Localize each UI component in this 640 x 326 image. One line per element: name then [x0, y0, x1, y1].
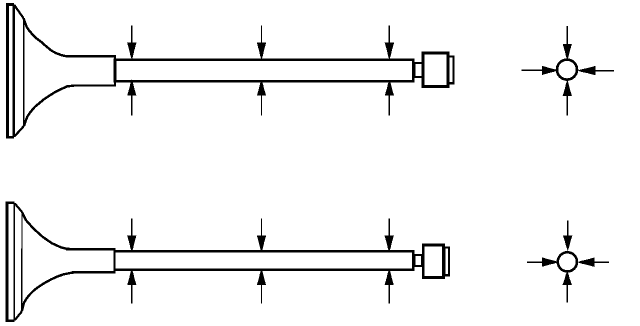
cross-section circle 1 — [557, 60, 577, 80]
valve 2 stem arrow up 3 shaft — [388, 284, 390, 304]
valve 2 stem arrow down 2 head — [258, 236, 266, 251]
valve 1 stem arrow down 3 head — [385, 43, 393, 58]
valve 1 neck bottom line — [72, 84, 115, 86]
valve 1 tip cap — [449, 57, 454, 84]
valve 2 stem arrow down 3 head — [385, 236, 393, 251]
valve 2 head bottom chamfer — [15, 312, 22, 321]
valve 2 tip cap — [445, 248, 449, 276]
valve 2 stem arrow up 1 head — [128, 270, 136, 285]
valve 2 tip block — [423, 245, 443, 277]
circle 1 left arrow shaft — [522, 69, 544, 71]
valve 1 stem arrow down 1 shaft — [131, 26, 133, 45]
valve 1 stem arrow up 3 head — [385, 81, 393, 95]
valve 2 neck-to-stem step — [113, 248, 115, 273]
valve 1 neck top line — [66, 55, 115, 58]
circle 1 right arrow shaft — [595, 70, 614, 72]
circle 2 top arrow shaft — [567, 220, 569, 237]
valve 1 head margin line — [23, 18, 25, 126]
valve 2 stem arrow up 3 head — [385, 270, 393, 285]
valve 2 stem arrow up 1 shaft — [131, 284, 133, 304]
valve 2 stem — [115, 251, 414, 269]
valve 1 head face outline — [7, 4, 14, 137]
valve 2 stem arrow down 3 shaft — [388, 218, 390, 237]
circle 1 bottom arrow head — [563, 81, 571, 95]
circle 1 right arrow head — [579, 67, 595, 75]
valve 1 head top chamfer — [14, 5, 23, 18]
circle 2 right arrow head — [579, 258, 594, 266]
valve 1 stem arrow up 1 head — [128, 81, 136, 95]
valve 1 stem arrow up 2 shaft — [261, 94, 263, 115]
cross-section circle 2 — [558, 252, 577, 271]
valve 2 keeper groove — [414, 255, 422, 266]
circle 2 top arrow head — [564, 236, 572, 249]
valve 1 tip block — [423, 53, 448, 86]
circle 2 left arrow shaft — [527, 261, 544, 263]
circle 1 top arrow head — [563, 44, 571, 58]
valve 1 lower fillet — [24, 86, 74, 126]
circle 1 top arrow shaft — [566, 26, 568, 45]
valve 1 stem arrow up 1 shaft — [131, 94, 133, 115]
circle 2 left arrow head — [543, 258, 558, 266]
valve 1 stem arrow down 1 head — [128, 43, 136, 58]
valve 1 upper fillet — [24, 18, 71, 56]
valve 2 head top chamfer — [15, 203, 22, 211]
valve 2 stem arrow down 1 shaft — [131, 218, 133, 237]
valve 2 stem arrow up 2 head — [258, 270, 266, 285]
valve 2 lower fillet — [22, 273, 74, 312]
valve 2 neck top line — [66, 248, 115, 251]
valve 2 head face outline — [7, 203, 15, 321]
valve 1 stem arrow down 2 shaft — [261, 26, 263, 45]
valve 1 keeper groove — [414, 63, 423, 77]
valve 2 stem arrow up 2 shaft — [261, 284, 263, 304]
valve 1 neck-to-stem step — [114, 55, 116, 87]
valve 2 neck bottom line — [72, 271, 115, 273]
circle 1 left arrow head — [542, 66, 556, 74]
circle 2 right arrow shaft — [594, 261, 609, 263]
valve 1 stem arrow down 3 shaft — [388, 26, 390, 45]
valve 2 upper fillet — [22, 212, 70, 249]
valve 1 stem arrow down 2 head — [258, 43, 266, 58]
valve 2 stem arrow down 1 head — [128, 236, 136, 251]
valve 2 stem arrow down 2 shaft — [261, 218, 263, 237]
circle 2 bottom arrow head — [563, 272, 571, 284]
circle 2 bottom arrow shaft — [566, 284, 568, 302]
circle 1 bottom arrow shaft — [566, 95, 568, 115]
valve 1 stem arrow up 2 head — [258, 81, 266, 95]
valve 2 head margin line — [21, 212, 23, 312]
valve 2 head face inner line — [13, 203, 15, 321]
valve 1 head bottom chamfer — [14, 126, 24, 137]
valve 1 stem arrow up 3 shaft — [388, 94, 390, 115]
valve 1 stem — [115, 60, 413, 81]
valve 1 head face inner line — [12, 4, 15, 137]
